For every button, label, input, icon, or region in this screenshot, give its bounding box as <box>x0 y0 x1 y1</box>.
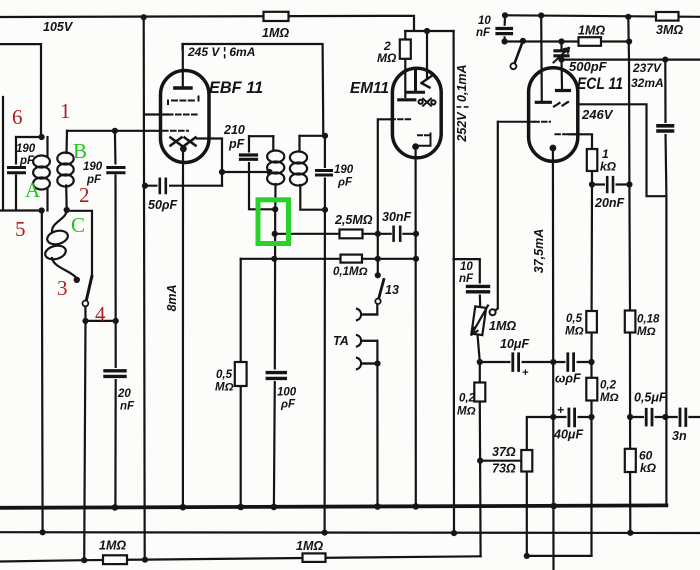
junction: ECL cathode / 10uF line <box>550 359 556 365</box>
svg-text:500pF: 500pF <box>569 59 608 74</box>
wire: 37ohm tap line <box>480 460 521 462</box>
capacitor C 20nF (right) <box>605 177 616 193</box>
wire: 10nF stub from HT rail <box>504 15 507 41</box>
switch 13 blade <box>379 280 384 299</box>
wire: coil1 leads <box>273 136 275 209</box>
svg-text:+: + <box>557 403 564 417</box>
potentiometer wiper arrow <box>472 306 489 335</box>
wire: 37/73 resistor bottom to heater segment <box>526 472 528 556</box>
junction: 0.5M column / coupling line <box>588 359 594 365</box>
junction: 0.2M column / 40uF line <box>588 414 594 420</box>
svg-text:10: 10 <box>478 15 491 27</box>
tube ECL11 envelope <box>529 68 578 162</box>
junction: switch column / AGC line <box>375 256 381 262</box>
resistor R 1M (AVC left) <box>103 555 127 564</box>
wire: coil A top bar <box>16 136 43 138</box>
junction: green-box lower node / detector line <box>272 231 278 237</box>
svg-text:1MΩ: 1MΩ <box>489 319 516 333</box>
junction: diode line / coil1 tap <box>266 169 272 175</box>
colored annotation labels <box>12 99 106 326</box>
capacitor C omega-pF <box>566 353 577 371</box>
junction: 10nF stub / HT rail <box>502 12 508 18</box>
EM11 grid (dashed) <box>391 118 412 120</box>
wire: 210pF leads and link to green node <box>249 136 275 209</box>
svg-text:C: C <box>71 213 85 237</box>
junction: trimmer bottom / 237V line <box>558 57 564 63</box>
wire: 3n line to right edge <box>665 416 700 418</box>
wire: EBF11 anode lead <box>182 44 184 88</box>
svg-text:190: 190 <box>16 143 36 155</box>
svg-text:0,2: 0,2 <box>600 380 617 392</box>
svg-text:TA: TA <box>333 334 349 348</box>
svg-text:20nF: 20nF <box>594 196 625 210</box>
wire: left page-edge stub <box>2 97 4 211</box>
svg-text:32mA: 32mA <box>631 76 664 90</box>
wire: top rail right segment (HT rail) <box>505 15 700 16</box>
junction: oscillator line / right column <box>626 38 632 44</box>
capacitor C 30nF <box>392 226 403 241</box>
svg-text:0,5: 0,5 <box>216 369 233 381</box>
junction: IF column / rail 2 <box>322 530 328 536</box>
wire: TA middle jack lead <box>364 340 378 342</box>
capacitor C 10uF electrolytic <box>511 353 522 371</box>
svg-text:237V: 237V <box>632 61 662 75</box>
EM11 cathode dot <box>412 143 419 150</box>
resistor R 60k <box>625 449 636 472</box>
svg-text:MΩ: MΩ <box>637 326 656 338</box>
junction: node5 column / rail 2 <box>40 529 46 535</box>
svg-text:pF: pF <box>228 137 245 151</box>
wire: EM11 grid line down switch column x=377.8 <box>378 119 392 275</box>
svg-text:nF: nF <box>476 27 491 39</box>
EBF11 anode plate bar <box>175 86 191 89</box>
band switch pivot circle <box>83 301 89 307</box>
junction: node 1 grid line / column x115 <box>112 128 118 134</box>
EM11 deflection cross symbol <box>419 99 436 106</box>
tube EM11 envelope <box>392 68 441 158</box>
svg-text:245 V ¦ 6mA: 245 V ¦ 6mA <box>187 45 255 59</box>
ECL11 triode grid (dashed, to right) <box>556 133 576 135</box>
resistor R 0.2M (right) <box>586 378 597 401</box>
junction: 252V column / rail 2 <box>451 530 457 536</box>
EM11 target L-electrode <box>422 76 432 88</box>
wire: right column x=629.5 from HT rail to rail 2 <box>628 17 630 533</box>
svg-text:1MΩ: 1MΩ <box>296 539 323 553</box>
junction: 237V line / output column <box>662 57 668 63</box>
svg-text:nF: nF <box>120 401 135 413</box>
resistor R 0.1M <box>341 255 363 263</box>
svg-text:1MΩ: 1MΩ <box>578 24 605 38</box>
svg-text:B: B <box>73 139 87 163</box>
svg-text:13: 13 <box>385 283 399 297</box>
svg-text:ρF: ρF <box>337 177 353 189</box>
wire: TA bottom jack lead <box>364 362 378 364</box>
junction: 1k bottom / 20nF <box>589 181 595 187</box>
svg-text:37Ω: 37Ω <box>492 445 516 459</box>
resistor R 2.5M <box>340 230 363 239</box>
wire: coil2 leads <box>300 136 326 210</box>
junction: 100pF column / ground bus <box>271 504 278 511</box>
wire: 10uF coupling line y=362 <box>480 361 592 363</box>
junction: EM11 cathode / 0.1M line <box>413 256 419 262</box>
junction: pot bottom / 10uF line <box>477 359 483 365</box>
junction: 100pF column / AGC line <box>271 256 277 262</box>
svg-text:6: 6 <box>12 105 23 129</box>
junction: switch column / AVC rail <box>81 557 87 563</box>
wire: 20nF line y=184.5 <box>592 183 629 185</box>
band switch fixed contact (node 3) <box>74 277 80 283</box>
svg-text:0,2: 0,2 <box>459 393 476 405</box>
junction: trimmer top <box>558 38 564 44</box>
wire: 50pF AGC line <box>145 185 222 187</box>
resistor R 1k (ECL11 grid stopper) <box>587 149 598 171</box>
svg-text:1MΩ: 1MΩ <box>99 539 126 553</box>
oscillator switch pivot circle <box>510 63 516 69</box>
oscillator switch blade (top right) <box>515 41 523 64</box>
junction: TA column / ground bus <box>374 503 381 510</box>
svg-text:kΩ: kΩ <box>600 160 617 174</box>
svg-text:ρF: ρF <box>280 399 296 411</box>
wire: 40uF line y=417 from 37/73 resistor corner <box>527 417 592 450</box>
junction: right column / HT rail <box>625 14 631 20</box>
EBF11 diode plates (two X marks) <box>171 138 196 146</box>
svg-text:kΩ: kΩ <box>640 461 657 475</box>
svg-text:10: 10 <box>460 261 473 273</box>
junction: IF secondary top / 245V feed <box>322 133 328 139</box>
svg-text:2: 2 <box>79 183 90 207</box>
wire: IF1 secondary top bar <box>300 135 326 137</box>
wire: column below node 4 to AVC rail 3 <box>84 321 85 560</box>
capacitor C 500pF trimmer arrow <box>554 48 570 63</box>
ECL11 pentode grid slant dashes <box>554 102 568 107</box>
capacitor C 40uF electrolytic <box>567 408 578 427</box>
svg-text:MΩ: MΩ <box>377 51 397 65</box>
ECL11 triode anode bar <box>557 89 570 92</box>
capacitor C 190pF (IF secondary) <box>316 168 332 178</box>
wire: 245V anode supply line with end tick <box>183 44 324 136</box>
wire: AVC rail 3 sloped, corner up at x=480.6 <box>0 556 481 561</box>
svg-text:10μF: 10μF <box>500 337 529 351</box>
capacitor C 10nF (grid feed, x=480) <box>467 284 489 295</box>
junction: node 4 right <box>113 318 119 324</box>
capacitor C 0.5uF <box>644 409 655 427</box>
EM11 plate bar with stem <box>408 68 424 92</box>
band switch blade <box>86 277 92 301</box>
wire: pot bottom to 10uF line <box>478 335 480 363</box>
wire: 246V line from ECL11 to right column <box>578 104 666 196</box>
wire: EM11 anode lead from top link <box>404 31 406 97</box>
wire: 190pF(A) cap leads <box>15 137 17 211</box>
svg-text:4: 4 <box>95 302 106 326</box>
svg-text:1: 1 <box>60 99 71 123</box>
coil2 IF secondary (3 loops) <box>290 152 307 164</box>
coil C (slanted loops) <box>52 210 67 231</box>
wire: EBF11 screen grid tap <box>145 113 168 115</box>
wire: column x=115 from grid1 line down (190pF B, node 4, 20nF, ground) <box>114 131 117 507</box>
svg-text:1MΩ: 1MΩ <box>262 26 289 40</box>
ground bus (thick chassis rail) <box>0 505 666 507</box>
capacitor C 20nF (left) <box>105 368 126 379</box>
switch 13 pivot circle <box>375 299 380 304</box>
wire: detector line 2.5M/30nF y=233.8 <box>275 233 416 235</box>
wire: 252V column x=453.5 down to rail 2 <box>453 31 456 534</box>
junction: 50pF / AVC column <box>142 183 148 189</box>
svg-text:2,5MΩ: 2,5MΩ <box>334 213 373 227</box>
junction: node 5 / coil A bottom <box>39 207 45 213</box>
junction: 0.5M column / ground bus <box>237 504 244 511</box>
wire: antenna lead node 6 from left edge down to coil A top <box>0 44 41 137</box>
svg-text:MΩ: MΩ <box>457 406 476 418</box>
resistor R 0.5M (right) <box>586 311 597 333</box>
wire: node 4 bar <box>86 320 116 322</box>
wire: TA column to ground <box>376 341 378 507</box>
svg-text:ωρF: ωρF <box>555 372 581 386</box>
potentiometer wiper terminal circle <box>490 309 496 315</box>
resistor R 0.18M <box>625 311 636 333</box>
junction: TA bottom jack <box>374 360 380 366</box>
svg-text:100: 100 <box>277 387 297 399</box>
oscillator switch fixed contact <box>520 38 526 44</box>
TA jack middle <box>357 335 377 346</box>
junction: EM11 cathode / 30nF <box>413 231 419 237</box>
wire: screen-grid column x=144.7 from 105V rail down to AVC rail 3 <box>144 17 145 560</box>
svg-text:190: 190 <box>334 164 354 176</box>
svg-text:50ρF: 50ρF <box>148 198 177 212</box>
capacitor C 10nF (top, x=504) <box>497 26 513 37</box>
capacitor C 500pF trimmer plates <box>555 51 568 56</box>
junction: EM11 cathode / ground bus <box>413 503 420 510</box>
svg-text:nF: nF <box>459 273 474 285</box>
capacitor C 50pF <box>158 179 170 193</box>
svg-text:0,1MΩ: 0,1MΩ <box>333 266 368 278</box>
svg-text:8mA: 8mA <box>165 284 179 311</box>
junction: ECL11 anode lead / HT rail <box>538 12 544 18</box>
wire: heater segment y=555.9 <box>527 555 592 557</box>
svg-text:5: 5 <box>15 217 26 241</box>
resistor R 1M (oscillator line) <box>579 37 602 46</box>
wire: grid feed line to volume pot column <box>454 259 481 307</box>
svg-text:EBF 11: EBF 11 <box>209 79 263 97</box>
junction: EM11 target lead / top link <box>424 28 430 34</box>
resistor R 0.2M (left) <box>474 383 485 402</box>
wire: 1k/0.5M column x=592 from ECL triode grid <box>569 134 592 362</box>
wire: ECL11 pentode anode lead from HT rail <box>540 16 543 101</box>
svg-text:MΩ: MΩ <box>565 326 584 338</box>
svg-text:EM11: EM11 <box>350 80 389 97</box>
wire: EM11 target lead <box>426 31 428 78</box>
wire: node 5 bottom bar to left edge <box>0 209 43 211</box>
junction: green-box upper node <box>272 206 278 212</box>
svg-text:0,5: 0,5 <box>566 313 583 325</box>
junction: ECL11 cathode / ground bus <box>551 503 558 510</box>
EBF11 grid 2 (dashed) <box>168 114 197 116</box>
wire: 0.5uF line y=417 <box>630 416 665 418</box>
junction: EBF11 cathode / ground bus <box>180 504 187 511</box>
wire: coil B bottom to band switch blade column <box>67 211 92 278</box>
ECL11 grid (dashed, to left) <box>535 121 551 123</box>
svg-text:pF: pF <box>19 155 35 167</box>
junction: ECL cathode / 40uF line <box>550 414 556 420</box>
wire: TA top jack lead to switch pivot <box>364 305 378 315</box>
wire: output column x=666.5 (10nF right, 0.5uF node, ground corner) <box>665 60 666 506</box>
capacitor C 190pF (A) <box>9 165 25 175</box>
coil A (3 loops) <box>46 137 48 156</box>
svg-text:MΩ: MΩ <box>600 392 619 404</box>
svg-text:3n: 3n <box>672 429 687 443</box>
EBF11 cathode dot <box>180 145 187 152</box>
EM11 shield bar (left electrode) <box>399 98 415 101</box>
capacitor C 100pF <box>267 370 286 382</box>
junction: IF secondary bottom <box>322 207 328 213</box>
wire: EBF11 diode lead to IF node <box>197 139 222 186</box>
resistor R 1M (AVC middle) <box>303 553 326 562</box>
switch 13 fixed contact <box>375 272 381 278</box>
tube EBF11 envelope <box>161 71 210 163</box>
junction: screen column / AVC rail <box>142 557 148 563</box>
svg-text:252V ¦ 0,1mA: 252V ¦ 0,1mA <box>455 64 469 142</box>
wire: 237V line y=59.6 <box>562 58 700 60</box>
capacitor C 210pF <box>240 153 257 163</box>
svg-text:73Ω: 73Ω <box>492 462 516 476</box>
svg-text:105V: 105V <box>43 20 74 34</box>
svg-text:37,5mA: 37,5mA <box>532 229 546 273</box>
wire: AGC line 0.1M y=258.8 <box>241 258 416 260</box>
wire: ECL11 triode anode lead <box>560 60 563 88</box>
junction: node 6 lead / coil A top <box>39 134 45 140</box>
junction: node 4 left <box>82 318 88 324</box>
junction: 10nF / oscillator line <box>502 38 508 44</box>
svg-text:+: + <box>522 367 529 379</box>
svg-text:A: A <box>25 178 41 202</box>
junction: right column / rail 2 <box>627 530 633 536</box>
wire: ECL11 pentode grid column x=497.8 <box>495 122 498 311</box>
junction: EM11 grid / detector line <box>375 231 381 237</box>
wire: column from node 5 down to AVC rail 2 <box>41 211 44 533</box>
EBF11 grid 1 (dashed) <box>163 130 188 132</box>
EBF11 grid 3 (dashed with end hooks) <box>172 100 196 102</box>
green highlight box <box>258 200 289 244</box>
svg-text:3MΩ: 3MΩ <box>656 23 683 37</box>
wire: EBF11 cathode column (8mA) down to ground bus <box>182 149 184 508</box>
svg-text:210: 210 <box>223 123 245 137</box>
wire: ECL11 cathode column (37.5mA) to bottom <box>552 148 555 570</box>
junction: 0.2M column / 37ohm tap <box>477 458 483 464</box>
junction: screen column / 105V rail <box>141 14 147 20</box>
coil B (3 loops) <box>65 131 68 153</box>
wire: switch pivot down to node 4 bar <box>84 306 86 321</box>
junction: right column / 0.5uF line <box>627 414 633 420</box>
junction: 20nF column / ground bus <box>112 504 119 511</box>
junction: diode line / 50pF branch <box>219 169 225 175</box>
resistor R 2M (EM11 anode) <box>400 40 411 59</box>
wire: diode line to coil1 tap <box>222 171 270 173</box>
svg-text:30nF: 30nF <box>382 210 412 224</box>
coil1 IF primary (3 loops) <box>267 151 284 163</box>
wire: 105V top rail left segment with corner down to EM11 top link <box>0 16 454 31</box>
TA jack top (half circle) <box>357 309 377 320</box>
svg-text:246V: 246V <box>581 107 614 122</box>
wire: green-box column x=275 down (100pF, ground) <box>274 209 275 507</box>
svg-text:40μF: 40μF <box>553 428 583 442</box>
capacitor C 3n <box>678 408 689 426</box>
EM11 cathode dashes and bracket <box>418 134 430 136</box>
junction: 20nF / right column <box>626 181 632 187</box>
resistor R 3M (top right) <box>656 12 679 21</box>
wire: 0.5M column x=240.7 down to ground <box>240 259 242 507</box>
wire: rail 2 y=532.5 full width <box>0 531 700 534</box>
svg-text:3: 3 <box>57 276 68 300</box>
potentiometer R 1M (volume) body <box>471 306 486 335</box>
svg-text:ECL 11: ECL 11 <box>577 75 623 93</box>
junction: node 2 coil B bottom / coil C top <box>64 207 70 213</box>
svg-text:MΩ: MΩ <box>215 382 234 394</box>
capacitor C 190pF (B) <box>108 165 124 175</box>
wire: IF1 primary top bar <box>249 135 273 137</box>
wire: oscillator switch line y=41.5 <box>505 40 630 42</box>
ECL11 cathode dot <box>550 145 557 152</box>
ECL11 pentode anode bar <box>536 101 550 104</box>
wire: EM11 cathode column down to ground bus <box>415 147 417 507</box>
resistor R 1M (top middle) <box>264 12 289 21</box>
junction: 37-73 bottom / heater segment <box>524 553 530 559</box>
junction: output column / 0.5uF line <box>662 414 668 420</box>
TA jack bottom <box>357 358 378 369</box>
wire: 0.2M right column x=591.5 <box>590 362 592 556</box>
capacitor C 10nF (right, x=666) <box>658 123 674 134</box>
wire: grid1 line from coil B top to EBF11 <box>67 130 161 132</box>
svg-text:20: 20 <box>117 388 131 400</box>
svg-text:0,5μF: 0,5μF <box>634 391 667 405</box>
wire: trimmer leads <box>560 42 562 60</box>
wire: 0.2M left column down to AVC rail 3 corner <box>479 362 482 556</box>
resistor R 37/73 ohm (tapped) <box>521 450 532 472</box>
wire: 190pF secondary column x=325 <box>324 136 326 533</box>
svg-text:0,18: 0,18 <box>637 314 660 326</box>
resistor R 0.5M (detector load) <box>235 362 247 386</box>
